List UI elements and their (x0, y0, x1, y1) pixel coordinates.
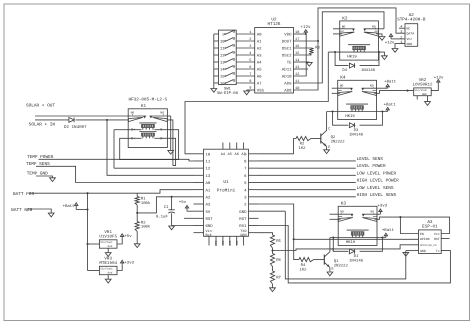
svg-text:+Batt: +Batt (63, 204, 75, 209)
svg-text:SW-DIP-08: SW-DIP-08 (217, 91, 239, 96)
svg-text:R+: R+ (131, 136, 135, 141)
svg-text:+12v: +12v (300, 25, 311, 30)
svg-text:VSS: VSS (257, 89, 265, 94)
svg-text:GND: GND (206, 224, 214, 229)
svg-text:1: 1 (249, 30, 251, 35)
svg-text:A5: A5 (257, 68, 262, 73)
svg-text:NC: NC (407, 27, 411, 31)
svg-text:K2: K2 (342, 16, 348, 21)
svg-text:HK19: HK19 (346, 240, 356, 245)
svg-text:+5v: +5v (179, 200, 187, 205)
svg-text:GND: GND (239, 210, 247, 215)
svg-text:NO: NO (340, 211, 344, 214)
svg-text:MTE1904: MTE1904 (99, 261, 117, 266)
svg-text:ESP-01: ESP-01 (422, 225, 438, 230)
svg-text:Q2: Q2 (331, 135, 336, 140)
svg-text:S-: S- (160, 128, 164, 133)
svg-text:RX1: RX1 (239, 224, 247, 229)
svg-text:DATA: DATA (407, 32, 415, 36)
svg-text:HT12E: HT12E (268, 22, 281, 27)
svg-text:OSC1: OSC1 (282, 47, 292, 52)
svg-text:HIGH LEVEL SENS: HIGH LEVEL SENS (357, 193, 397, 198)
svg-text:AD10: AD10 (282, 75, 292, 80)
svg-text:100k: 100k (141, 225, 151, 230)
svg-text:A1: A1 (206, 188, 211, 193)
svg-text:BATT NEG: BATT NEG (11, 208, 32, 213)
svg-text:Vcc: Vcc (407, 37, 413, 41)
svg-text:C1: C1 (164, 205, 169, 210)
svg-text:+3v3: +3v3 (124, 260, 134, 265)
svg-text:VCC: VCC (222, 240, 225, 245)
svg-text:CTS: CTS (215, 240, 218, 245)
svg-text:R7: R7 (276, 275, 281, 280)
svg-text:D2 1N4007: D2 1N4007 (64, 125, 87, 130)
svg-text:LOV50R12: LOV50R12 (412, 83, 433, 88)
svg-text:SW1: SW1 (224, 87, 232, 92)
svg-text:A2: A2 (257, 47, 262, 52)
svg-text:+5v: +5v (124, 234, 132, 239)
svg-text:HF32-005-M-L2-S: HF32-005-M-L2-S (128, 98, 167, 103)
svg-text:+12v: +12v (385, 41, 395, 46)
svg-text:A6: A6 (257, 75, 262, 80)
svg-text:1: 1 (400, 40, 402, 45)
svg-text:C: C (332, 248, 334, 253)
svg-text:100k: 100k (141, 201, 151, 206)
svg-text:+Batt: +Batt (382, 228, 394, 233)
svg-text:K4: K4 (340, 76, 346, 81)
svg-text:A0: A0 (206, 181, 211, 186)
svg-text:R6: R6 (276, 258, 281, 263)
svg-text:U1V10F5: U1V10F5 (99, 234, 117, 239)
svg-text:A5: A5 (228, 152, 232, 157)
svg-text:A3: A3 (206, 203, 211, 208)
svg-text:NO: NO (340, 85, 344, 88)
svg-text:2N2222: 2N2222 (334, 263, 349, 268)
svg-text:D1: D1 (354, 254, 359, 259)
svg-text:TXO: TXO (236, 240, 239, 245)
svg-text:LOW LEVEL SENS: LOW LEVEL SENS (357, 186, 394, 191)
svg-text:2N2222: 2N2222 (331, 140, 346, 145)
svg-text:+Batt: +Batt (384, 103, 396, 108)
svg-text:AD11: AD11 (282, 68, 292, 73)
svg-text:NO: NO (160, 112, 164, 115)
svg-text:11: 11 (220, 47, 225, 52)
svg-text:A1: A1 (257, 40, 262, 45)
svg-text:VR2: VR2 (419, 78, 427, 83)
svg-text:DOUT: DOUT (282, 40, 292, 45)
svg-text:2: 2 (400, 35, 402, 40)
svg-text:Vin/Vout: Vin/Vout (100, 241, 113, 244)
svg-text:10: 10 (206, 152, 211, 157)
svg-text:OSC2: OSC2 (282, 54, 292, 59)
svg-text:NO: NO (342, 25, 346, 28)
svg-text:A0: A0 (257, 33, 262, 38)
svg-text:Vin/Vout: Vin/Vout (415, 89, 428, 92)
svg-text:K3: K3 (341, 202, 347, 207)
svg-text:3: 3 (249, 44, 251, 49)
svg-text:E: E (328, 145, 330, 150)
svg-text:BATT POS: BATT POS (13, 192, 34, 197)
svg-text:Vin/Vout: Vin/Vout (100, 268, 113, 271)
svg-text:D3: D3 (354, 128, 359, 133)
svg-text:11: 11 (206, 160, 211, 165)
svg-text:RXI: RXI (229, 240, 232, 245)
svg-text:A7: A7 (241, 152, 245, 157)
svg-text:7: 7 (249, 72, 251, 77)
svg-text:R2: R2 (300, 142, 305, 147)
svg-text:4: 4 (249, 51, 251, 56)
svg-text:LOW LEVEL POWER: LOW LEVEL POWER (357, 171, 397, 176)
svg-text:GND: GND (407, 42, 413, 46)
svg-text:Q1: Q1 (334, 259, 339, 264)
svg-text:3: 3 (400, 30, 402, 35)
svg-text:HK19: HK19 (347, 55, 357, 60)
svg-text:R2: R2 (141, 220, 146, 225)
svg-text:GPIO0: GPIO0 (420, 237, 430, 241)
svg-text:C: C (328, 126, 330, 131)
svg-text:1N4148: 1N4148 (361, 68, 376, 73)
svg-text:LEVEL SENS: LEVEL SENS (357, 157, 384, 162)
svg-text:1N4148: 1N4148 (349, 258, 364, 263)
svg-text:8: 8 (249, 79, 251, 84)
svg-text:D4: D4 (342, 68, 347, 73)
svg-text:0.1uF: 0.1uF (156, 215, 168, 220)
svg-text:15: 15 (220, 75, 225, 80)
svg-text:R-: R- (160, 136, 164, 141)
svg-text:RST: RST (206, 217, 214, 222)
svg-text:A4: A4 (257, 61, 262, 66)
svg-text:5: 5 (249, 58, 251, 63)
svg-text:TE: TE (287, 61, 292, 66)
svg-text:R5: R5 (276, 239, 281, 244)
svg-text:VDD: VDD (284, 33, 292, 38)
svg-text:12: 12 (220, 54, 225, 59)
svg-text:EN: EN (420, 232, 424, 236)
svg-text:1N4148: 1N4148 (349, 132, 364, 137)
svg-text:A6: A6 (235, 152, 239, 157)
svg-text:1K2: 1K2 (298, 146, 306, 151)
svg-text:RST: RST (239, 217, 247, 222)
svg-text:GPIO2(Rx_PD: GPIO2(Rx_PD (420, 244, 437, 247)
svg-text:AD9: AD9 (284, 82, 292, 87)
svg-text:GND: GND (420, 249, 426, 253)
svg-text:SOLAR + IN: SOLAR + IN (29, 122, 56, 127)
svg-text:13: 13 (206, 174, 211, 179)
svg-text:STP4-420H-B: STP4-420H-B (397, 18, 426, 23)
svg-text:A3: A3 (257, 54, 262, 59)
svg-text:RST: RST (434, 237, 440, 241)
svg-text:Tx: Tx (436, 249, 440, 253)
svg-text:A2: A2 (206, 195, 211, 200)
svg-text:GND: GND (422, 93, 427, 96)
svg-text:+Batt: +Batt (384, 80, 396, 85)
svg-text:LEVEL POWER: LEVEL POWER (357, 164, 386, 169)
svg-text:6: 6 (249, 65, 251, 70)
svg-text:+3v3: +3v3 (378, 204, 388, 209)
svg-text:ProMini: ProMini (217, 188, 236, 194)
svg-text:TEMP GND: TEMP GND (27, 171, 48, 176)
svg-text:14: 14 (220, 68, 225, 73)
svg-text:Gnd: Gnd (108, 245, 113, 248)
svg-text:AD8: AD8 (284, 89, 292, 94)
svg-text:SOLAR + OUT: SOLAR + OUT (26, 103, 55, 108)
svg-text:R1: R1 (141, 197, 146, 202)
svg-text:K1: K1 (141, 104, 147, 109)
svg-text:2: 2 (249, 37, 251, 42)
svg-text:S+: S+ (131, 128, 135, 133)
svg-text:5V: 5V (206, 210, 211, 215)
svg-text:HIGH LEVEL POWER: HIGH LEVEL POWER (357, 179, 400, 184)
svg-text:U1: U1 (223, 180, 229, 185)
svg-text:Vcc: Vcc (434, 232, 440, 236)
svg-text:16: 16 (220, 82, 225, 87)
svg-text:A7: A7 (257, 82, 262, 87)
svg-text:HK19: HK19 (345, 114, 355, 119)
svg-text:1K2: 1K2 (299, 267, 307, 272)
svg-text:Gnd: Gnd (108, 272, 113, 275)
svg-text:12: 12 (206, 167, 211, 172)
svg-text:R4: R4 (301, 263, 306, 268)
svg-text:13: 13 (220, 61, 225, 66)
svg-text:10: 10 (220, 40, 225, 45)
svg-text:+12v: +12v (434, 75, 444, 80)
svg-text:4: 4 (400, 25, 402, 30)
svg-text:A4: A4 (221, 152, 225, 157)
